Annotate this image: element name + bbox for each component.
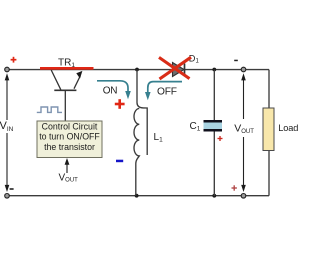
svg-text:the transistor: the transistor xyxy=(44,142,95,152)
ON arrowhead xyxy=(125,91,131,99)
capacitor C1 wires xyxy=(213,70,215,197)
red X over diode xyxy=(159,57,191,79)
wire top rail xyxy=(7,69,269,71)
feedback arrowhead xyxy=(65,158,70,165)
capacitor + (red) xyxy=(218,136,223,141)
OFF arrow (teal) xyxy=(148,82,182,93)
inductor polarity + (red) xyxy=(115,99,125,109)
output minus (top) xyxy=(234,60,238,62)
svg-text:ON: ON xyxy=(103,85,118,96)
svg-text:Load: Load xyxy=(278,123,298,133)
feedback arrow line xyxy=(66,162,68,173)
wire right rail (through load) xyxy=(268,70,270,196)
output terminal top node xyxy=(241,67,246,72)
inductor L1 xyxy=(134,70,147,196)
OFF arrowhead xyxy=(145,92,151,100)
svg-text:Control Circuit: Control Circuit xyxy=(42,121,98,131)
Vin up arrowhead xyxy=(5,73,10,80)
input terminal bottom xyxy=(5,194,10,199)
diode D1 (triangle) xyxy=(173,63,185,77)
Vout measure line xyxy=(243,78,245,188)
ON arrow (teal) xyxy=(97,81,128,92)
inductor polarity - (blue) xyxy=(116,160,123,163)
svg-text:to turn ON/OFF: to turn ON/OFF xyxy=(39,132,100,142)
square wave icon xyxy=(37,107,62,112)
Vout up arrowhead xyxy=(241,73,246,80)
Vout down arrowhead xyxy=(241,185,246,192)
transistor TR1 xyxy=(51,70,80,121)
capacitor C1 xyxy=(204,122,223,129)
input plus (red) xyxy=(11,57,17,63)
transistor TR1 emitter arrowhead xyxy=(76,71,82,79)
load resistor box xyxy=(263,108,274,151)
transistor TR1 conducting path (red bar) xyxy=(40,67,94,70)
diode D1 (cathode bar) xyxy=(184,64,186,76)
Vin down arrowhead xyxy=(5,185,10,192)
wire bottom rail xyxy=(7,195,269,197)
output plus (bottom, dark red) xyxy=(232,185,237,190)
node A junction (inductor top) xyxy=(135,68,139,72)
junction inductor bottom xyxy=(135,194,139,198)
Vin measure line xyxy=(6,78,8,188)
input minus xyxy=(10,188,14,190)
input terminal top xyxy=(5,67,10,72)
output terminal bottom node xyxy=(241,194,246,199)
control circuit box xyxy=(37,121,102,158)
svg-text:OFF: OFF xyxy=(157,86,177,97)
junction C1 top xyxy=(212,68,216,72)
junction C1 bottom xyxy=(212,194,216,198)
